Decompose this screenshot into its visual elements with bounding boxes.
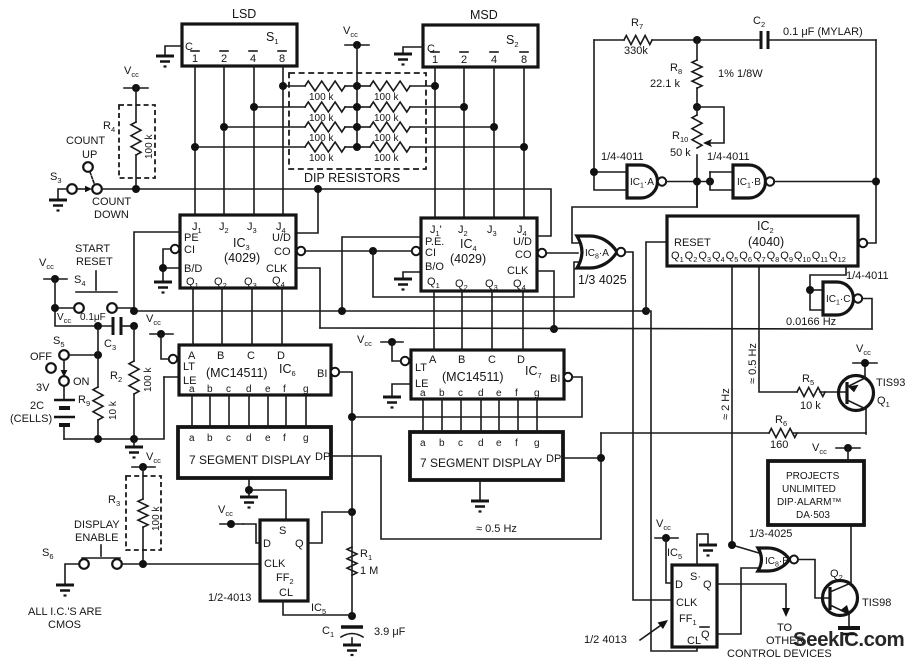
- svg-text:4: 4: [250, 53, 256, 65]
- wire IC4 PE to start line: [342, 237, 421, 311]
- resistor R6 160: [769, 429, 797, 438]
- svg-text:f: f: [283, 433, 286, 444]
- svg-text:≈ 2 Hz: ≈ 2 Hz: [720, 388, 732, 420]
- svg-text:160: 160: [770, 439, 788, 451]
- capacitor C1 3.9uF: [341, 625, 363, 628]
- svg-text:CLK: CLK: [507, 265, 529, 277]
- resistor DIP row2 right 100k: [357, 102, 464, 124]
- wire IC2 Q4 2Hz to IC8-B: [731, 266, 733, 545]
- svg-text:CLK: CLK: [676, 597, 698, 609]
- wire IC3 CI-B/D tie to ground: [163, 249, 171, 281]
- capacitor C3 0.1uF: [112, 317, 115, 335]
- IC7 LT bubble: [401, 357, 409, 365]
- wire start line extension to FF1 CL: [646, 311, 697, 651]
- resistor R3 100k in dashed box: [126, 476, 161, 550]
- svg-text:Q: Q: [703, 579, 712, 591]
- svg-text:ALL I.C.'S ARE: ALL I.C.'S ARE: [28, 606, 102, 618]
- svg-text:f: f: [515, 388, 518, 399]
- svg-text:4: 4: [491, 54, 497, 66]
- svg-text:d: d: [246, 384, 252, 395]
- svg-text:7 SEGMENT DISPLAY: 7 SEGMENT DISPLAY: [189, 453, 311, 467]
- wire MSD pin2 to IC4 J2: [463, 67, 465, 218]
- display right 7 segment box: [410, 432, 563, 480]
- svg-text:PE: PE: [184, 232, 199, 244]
- svg-text:330k: 330k: [624, 45, 648, 57]
- IC4 CO output bubble: [538, 249, 546, 257]
- svg-text:CLK: CLK: [266, 263, 288, 275]
- svg-text:Q: Q: [701, 629, 710, 641]
- flip-flop FF2 1/2-4013 IC5 box: [260, 520, 308, 601]
- svg-text:D: D: [675, 579, 683, 591]
- IC3 CI input bubble: [171, 245, 179, 253]
- svg-text:RESET: RESET: [76, 256, 113, 268]
- wire FF2 Q to BI line: [308, 512, 352, 543]
- svg-text:8: 8: [521, 54, 527, 66]
- svg-text:c: c: [226, 433, 231, 444]
- svg-text:UNLIMITED: UNLIMITED: [782, 484, 836, 495]
- alarm module DA-503 box: [768, 461, 864, 525]
- resistor DIP row3 right 100k: [357, 122, 494, 144]
- svg-text:a: a: [189, 384, 195, 395]
- svg-text:1/2-4013: 1/2-4013: [208, 592, 251, 604]
- wire IC1-B inputs tie: [710, 172, 733, 190]
- transistor Q2 TIS98: [823, 581, 858, 616]
- node dots DIP rows to LSD pins: [279, 82, 287, 90]
- svg-text:50 k: 50 k: [670, 147, 691, 159]
- wire IC4 CLK to clock line: [537, 271, 554, 329]
- decoder IC7 MC14511 box: [411, 350, 564, 399]
- wires IC7 a-g to display right: [422, 399, 424, 432]
- wire Vcc to DIP resistor center column: [356, 45, 358, 147]
- counter IC4 (4029) box: [421, 218, 537, 291]
- svg-text:B: B: [458, 354, 465, 366]
- wire IC2 Q4 2Hz into IC8-B: [732, 545, 759, 553]
- arrow 1/2 4013 to FF1: [640, 623, 664, 640]
- node dots DIP rows to MSD pins: [431, 82, 439, 90]
- svg-text:1/4-4011: 1/4-4011: [846, 270, 889, 282]
- svg-text:b: b: [207, 433, 213, 444]
- svg-text:U/D: U/D: [513, 236, 532, 248]
- svg-text:1% 1/8W: 1% 1/8W: [718, 68, 763, 80]
- wire clock line 0.0166 Hz to IC3/IC4 CLK: [320, 328, 872, 329]
- svg-text:C: C: [247, 350, 255, 362]
- wire IC8-B output to Q2 base: [798, 560, 830, 599]
- IC7 BI bubble: [564, 373, 572, 381]
- svg-text:3V: 3V: [36, 382, 50, 394]
- svg-text:1 M: 1 M: [360, 565, 378, 577]
- resistor R1 1M: [347, 547, 357, 575]
- svg-text:f: f: [283, 384, 286, 395]
- svg-text:2C: 2C: [30, 400, 44, 412]
- svg-text:1/4-4011: 1/4-4011: [707, 151, 750, 163]
- IC6 LT bubble: [169, 355, 177, 363]
- svg-text:DIP RESISTORS: DIP RESISTORS: [304, 171, 400, 185]
- svg-text:DP: DP: [546, 453, 561, 465]
- wire LSD pin4 to IC3 J3: [253, 66, 255, 215]
- svg-text:2: 2: [461, 54, 467, 66]
- wire MSD pin8 to IC4 J4: [523, 67, 525, 218]
- wire IC8-A output to FF1 CLK: [625, 252, 672, 600]
- wire display enable line to FF2 CLK: [122, 563, 260, 565]
- svg-text:g: g: [534, 438, 540, 449]
- DIP resistors dashed enclosure: [289, 73, 426, 169]
- ground display left: [240, 497, 258, 508]
- wire Vcc to FF1 D: [666, 538, 672, 583]
- svg-text:CI: CI: [184, 244, 195, 256]
- svg-text:c: c: [458, 438, 463, 449]
- svg-text:c: c: [458, 388, 463, 399]
- node dots DIP center column: [353, 82, 361, 90]
- wire BI line IC6/IC7 to FF2 Q: [339, 372, 352, 616]
- svg-text:ON: ON: [73, 376, 90, 388]
- svg-text:DISPLAY: DISPLAY: [74, 519, 120, 531]
- svg-text:CO: CO: [515, 249, 532, 261]
- svg-text:d: d: [246, 433, 252, 444]
- NOR gate IC8-B 1/3-4025: [758, 548, 790, 571]
- switch block S2 MSD box: [423, 25, 538, 67]
- IC4 CI input bubble: [412, 247, 420, 255]
- svg-text:100 k: 100 k: [309, 153, 334, 164]
- svg-text:B/O: B/O: [425, 261, 444, 273]
- svg-text:BI: BI: [317, 368, 327, 380]
- svg-text:e: e: [265, 433, 271, 444]
- svg-text:22.1 k: 22.1 k: [650, 78, 680, 90]
- svg-text:D: D: [263, 538, 271, 550]
- svg-text:B/D: B/D: [184, 263, 202, 275]
- wire IC7 LE to ground: [392, 384, 411, 396]
- svg-text:b: b: [207, 384, 213, 395]
- NAND gate IC1-C 1/4-4011: [823, 282, 854, 315]
- decoder IC6 MC14511 box: [179, 345, 331, 395]
- svg-text:100 k: 100 k: [374, 153, 399, 164]
- ground IC4 B/O: [394, 279, 412, 290]
- svg-text:1: 1: [192, 53, 198, 65]
- ground S6: [56, 585, 74, 596]
- svg-text:D: D: [517, 354, 525, 366]
- svg-text:BI: BI: [550, 373, 560, 385]
- wire DP link left display to right display to R6: [331, 433, 601, 539]
- wire IC2 reset riser: [646, 242, 667, 311]
- svg-text:D: D: [277, 350, 285, 362]
- wire IC4 CO to IC8-A input: [546, 252, 578, 254]
- resistor DIP row3 left 100k: [224, 122, 357, 144]
- svg-text:≈ 0.5 Hz: ≈ 0.5 Hz: [747, 343, 759, 384]
- svg-text:CL: CL: [279, 587, 293, 599]
- svg-text:g: g: [303, 384, 309, 395]
- wires IC3 Q1-Q4 to IC6 A-D: [192, 288, 194, 345]
- svg-text:10 k: 10 k: [108, 400, 119, 420]
- svg-text:TIS93: TIS93: [876, 377, 905, 389]
- svg-text:0.1μF: 0.1μF: [80, 312, 106, 323]
- display left 7 segment box: [178, 427, 331, 478]
- switch block S1 LSD box: [182, 24, 297, 66]
- svg-text:CL: CL: [687, 635, 701, 647]
- svg-text:C: C: [488, 354, 496, 366]
- svg-text:1/3 4025: 1/3 4025: [578, 273, 627, 287]
- wire U/D net S3 to IC4: [102, 189, 551, 236]
- IC2 clock input bubble: [859, 239, 867, 247]
- svg-text:1/4-4011: 1/4-4011: [601, 151, 644, 163]
- wires IC4 Q1-Q4 to IC7 A-D: [433, 291, 435, 350]
- svg-text:10 k: 10 k: [800, 400, 821, 412]
- wire S6 to ground: [65, 564, 79, 584]
- svg-text:8: 8: [279, 53, 285, 65]
- svg-text:DIP·ALARM™: DIP·ALARM™: [777, 497, 841, 508]
- svg-text:100 k: 100 k: [143, 367, 154, 392]
- resistor R8 22.1k: [696, 40, 698, 60]
- svg-text:3.9 μF: 3.9 μF: [374, 626, 406, 638]
- oscillator top rail / resistor R7 330k: [594, 39, 624, 41]
- svg-text:e: e: [265, 384, 271, 395]
- svg-text:1/2 4013: 1/2 4013: [584, 634, 627, 646]
- wire IC3 CO to IC4 CI: [305, 250, 412, 252]
- svg-text:f: f: [515, 438, 518, 449]
- ground display right: [471, 501, 489, 512]
- resistor DIP row2 left 100k: [254, 102, 357, 124]
- svg-text:RESET: RESET: [674, 237, 711, 249]
- wire IC2 Q5 0.5Hz to R5: [759, 266, 797, 392]
- svg-text:(4040): (4040): [748, 235, 784, 249]
- resistor R5 10k: [797, 388, 825, 397]
- wire FF1 Qbar to IC8-B input: [717, 568, 759, 634]
- svg-text:Q: Q: [295, 538, 304, 550]
- wire IC2 Q12 to IC1-C inputs: [810, 266, 846, 310]
- capacitor C2 0.1uF mylar: [760, 31, 763, 49]
- wire LSD pin1 to IC3 J1: [194, 66, 196, 215]
- NAND gate IC1-A 1/4-4011: [627, 165, 658, 198]
- svg-text:e: e: [496, 388, 502, 399]
- svg-text:UP: UP: [82, 149, 97, 161]
- svg-text:PROJECTS: PROJECTS: [786, 471, 840, 482]
- svg-text:a: a: [420, 438, 426, 449]
- wire U/D branch to IC3: [296, 189, 318, 233]
- wire IC1-A output node: [666, 181, 710, 183]
- svg-text:b: b: [439, 438, 445, 449]
- svg-text:c: c: [226, 384, 231, 395]
- NAND gate IC1-B 1/4-4011: [733, 165, 766, 198]
- transistor Q1 TIS93: [839, 376, 874, 411]
- ground LSD: [156, 56, 174, 67]
- svg-text:(MC14511): (MC14511): [206, 366, 268, 380]
- wire ground rail battery/R9/R2: [64, 377, 164, 439]
- svg-text:DP: DP: [315, 451, 330, 463]
- svg-text:d: d: [478, 388, 484, 399]
- svg-text:DOWN: DOWN: [94, 209, 129, 221]
- wire LSD pin2 to IC3 J2: [223, 66, 225, 215]
- svg-text:CLK: CLK: [264, 558, 286, 570]
- wire IC3 CLK to clock line: [296, 268, 320, 328]
- svg-text:(4029): (4029): [450, 252, 486, 266]
- wire IC1-B output to C2 right and IC2 clock: [774, 181, 876, 183]
- svg-text:TIS98: TIS98: [862, 597, 891, 609]
- svg-text:SeekIC.com: SeekIC.com: [793, 628, 904, 651]
- resistor R4 100k in dashed box: [119, 105, 155, 178]
- ground IC7 LE: [383, 397, 401, 408]
- svg-text:CI: CI: [425, 247, 436, 259]
- wire S3 to ground: [58, 189, 67, 199]
- svg-text:COUNT: COUNT: [92, 196, 131, 208]
- svg-text:2: 2: [221, 53, 227, 65]
- ground MSD: [394, 54, 412, 65]
- svg-text:≈ 0.5 Hz: ≈ 0.5 Hz: [476, 523, 517, 535]
- svg-text:0.1 μF (MYLAR): 0.1 μF (MYLAR): [783, 26, 863, 38]
- wire R6 line DP to Q1: [601, 432, 769, 434]
- svg-text:DA·503: DA·503: [796, 510, 830, 521]
- wire MSD C to ground: [403, 47, 423, 53]
- svg-text:LT: LT: [415, 362, 427, 374]
- resistor R2 100k: [133, 326, 135, 361]
- wire IC4 B/O to ground: [403, 272, 421, 278]
- ground S3: [49, 200, 67, 211]
- wire MSD pin4 to IC4 J3: [493, 67, 495, 218]
- svg-text:ENABLE: ENABLE: [75, 532, 118, 544]
- wire Vcc node down to R9: [97, 326, 99, 387]
- wires IC6 a-g to display: [191, 395, 193, 427]
- resistor DIP row1 right 100k: [357, 81, 435, 103]
- wire MSD pin1 to IC4 J1: [434, 67, 436, 218]
- wire display right common to ground: [479, 480, 481, 500]
- svg-text:CO: CO: [274, 246, 291, 258]
- svg-text:a: a: [189, 433, 195, 444]
- ground Q2 emitter: [838, 628, 860, 634]
- svg-text:g: g: [534, 388, 540, 399]
- wire IC1-C output to clock line 0.0166 Hz: [862, 299, 872, 330]
- wire FF2 CL to R1/C1 node: [283, 601, 352, 615]
- counter IC3 (4029) box: [180, 215, 296, 288]
- svg-text:100 k: 100 k: [151, 506, 162, 531]
- resistor DIP row4 left 100k: [195, 142, 357, 164]
- svg-text:LSD: LSD: [232, 7, 256, 21]
- svg-text:A: A: [429, 354, 437, 366]
- svg-text:g: g: [303, 433, 309, 444]
- wire IC2 clock to oscillator output: [867, 40, 876, 243]
- svg-text:(4029): (4029): [224, 251, 260, 265]
- IC3 CO output bubble: [297, 247, 305, 255]
- resistor DIP row4 right 100k: [357, 142, 524, 164]
- svg-text:S·: S·: [690, 571, 701, 583]
- svg-text:e: e: [496, 438, 502, 449]
- svg-text:b: b: [439, 388, 445, 399]
- flip-flop FF1 1/2 4013 box: [672, 565, 717, 647]
- potentiometer R10 50k: [692, 115, 702, 148]
- svg-text:Q1 Q2 Q3 Q4 Q5 Q6 Q7 Q8 Q9 Q10: Q1 Q2 Q3 Q4 Q5 Q6 Q7 Q8 Q9 Q10 Q11 Q12: [671, 250, 846, 264]
- wire IC3 CO branch to IC8-A input: [373, 251, 578, 297]
- svg-text:1: 1: [432, 54, 438, 66]
- wire Vcc to S4 left contact and C3: [55, 279, 113, 326]
- ground FF1 S: [699, 545, 717, 556]
- svg-text:B: B: [217, 350, 224, 362]
- wire IC1-A inputs tied to R7: [594, 40, 627, 190]
- svg-text:COUNT: COUNT: [66, 135, 105, 147]
- svg-text:7 SEGMENT DISPLAY: 7 SEGMENT DISPLAY: [420, 456, 542, 470]
- wire FF1 Q to control devices: [717, 584, 786, 610]
- wire IC6 LE to ground rail: [164, 376, 179, 378]
- ground IC3 B/D: [154, 282, 172, 293]
- counter IC2 (4040) box: [667, 216, 858, 266]
- svg-text:1/3-4025: 1/3-4025: [749, 528, 792, 540]
- wire IC8-A top input from oscillator: [572, 181, 697, 243]
- svg-text:OFF: OFF: [30, 351, 52, 363]
- wire LSD C to ground: [165, 46, 182, 55]
- svg-text:0.0166 Hz: 0.0166 Hz: [786, 316, 836, 328]
- IC6 BI bubble: [331, 368, 339, 376]
- wire S4 right contact to start line: [117, 307, 134, 309]
- svg-text:S: S: [279, 525, 286, 537]
- svg-text:LT: LT: [183, 361, 195, 373]
- svg-text:(MC14511): (MC14511): [442, 370, 504, 384]
- svg-text:MSD: MSD: [470, 8, 498, 22]
- svg-text:TO: TO: [777, 622, 793, 634]
- svg-text:CMOS: CMOS: [48, 619, 81, 631]
- svg-text:(CELLS): (CELLS): [10, 413, 52, 425]
- resistor DIP row1 left 100k: [283, 81, 357, 103]
- svg-text:d: d: [478, 438, 484, 449]
- ground rail symbol: [125, 447, 143, 458]
- svg-text:START: START: [75, 243, 110, 255]
- wire LSD pin8 to IC3 J4: [282, 66, 284, 215]
- svg-text:a: a: [420, 388, 426, 399]
- wire display left common to ground and FF2 S: [248, 478, 250, 496]
- wire IC3 PE to start line: [134, 232, 180, 311]
- wire start/reset line S4 to IC2 reset: [134, 310, 646, 312]
- ground C1: [343, 645, 361, 655]
- wire FF1 S to ground: [697, 534, 708, 565]
- svg-text:U/D: U/D: [272, 232, 291, 244]
- NOR gate IC8-A 1/3 4025: [577, 236, 617, 268]
- wire S5 to Vcc node: [69, 354, 98, 356]
- svg-text:100 k: 100 k: [144, 134, 155, 159]
- wire Vcc to FF2 D: [243, 524, 260, 543]
- resistor R9 10k: [93, 387, 103, 420]
